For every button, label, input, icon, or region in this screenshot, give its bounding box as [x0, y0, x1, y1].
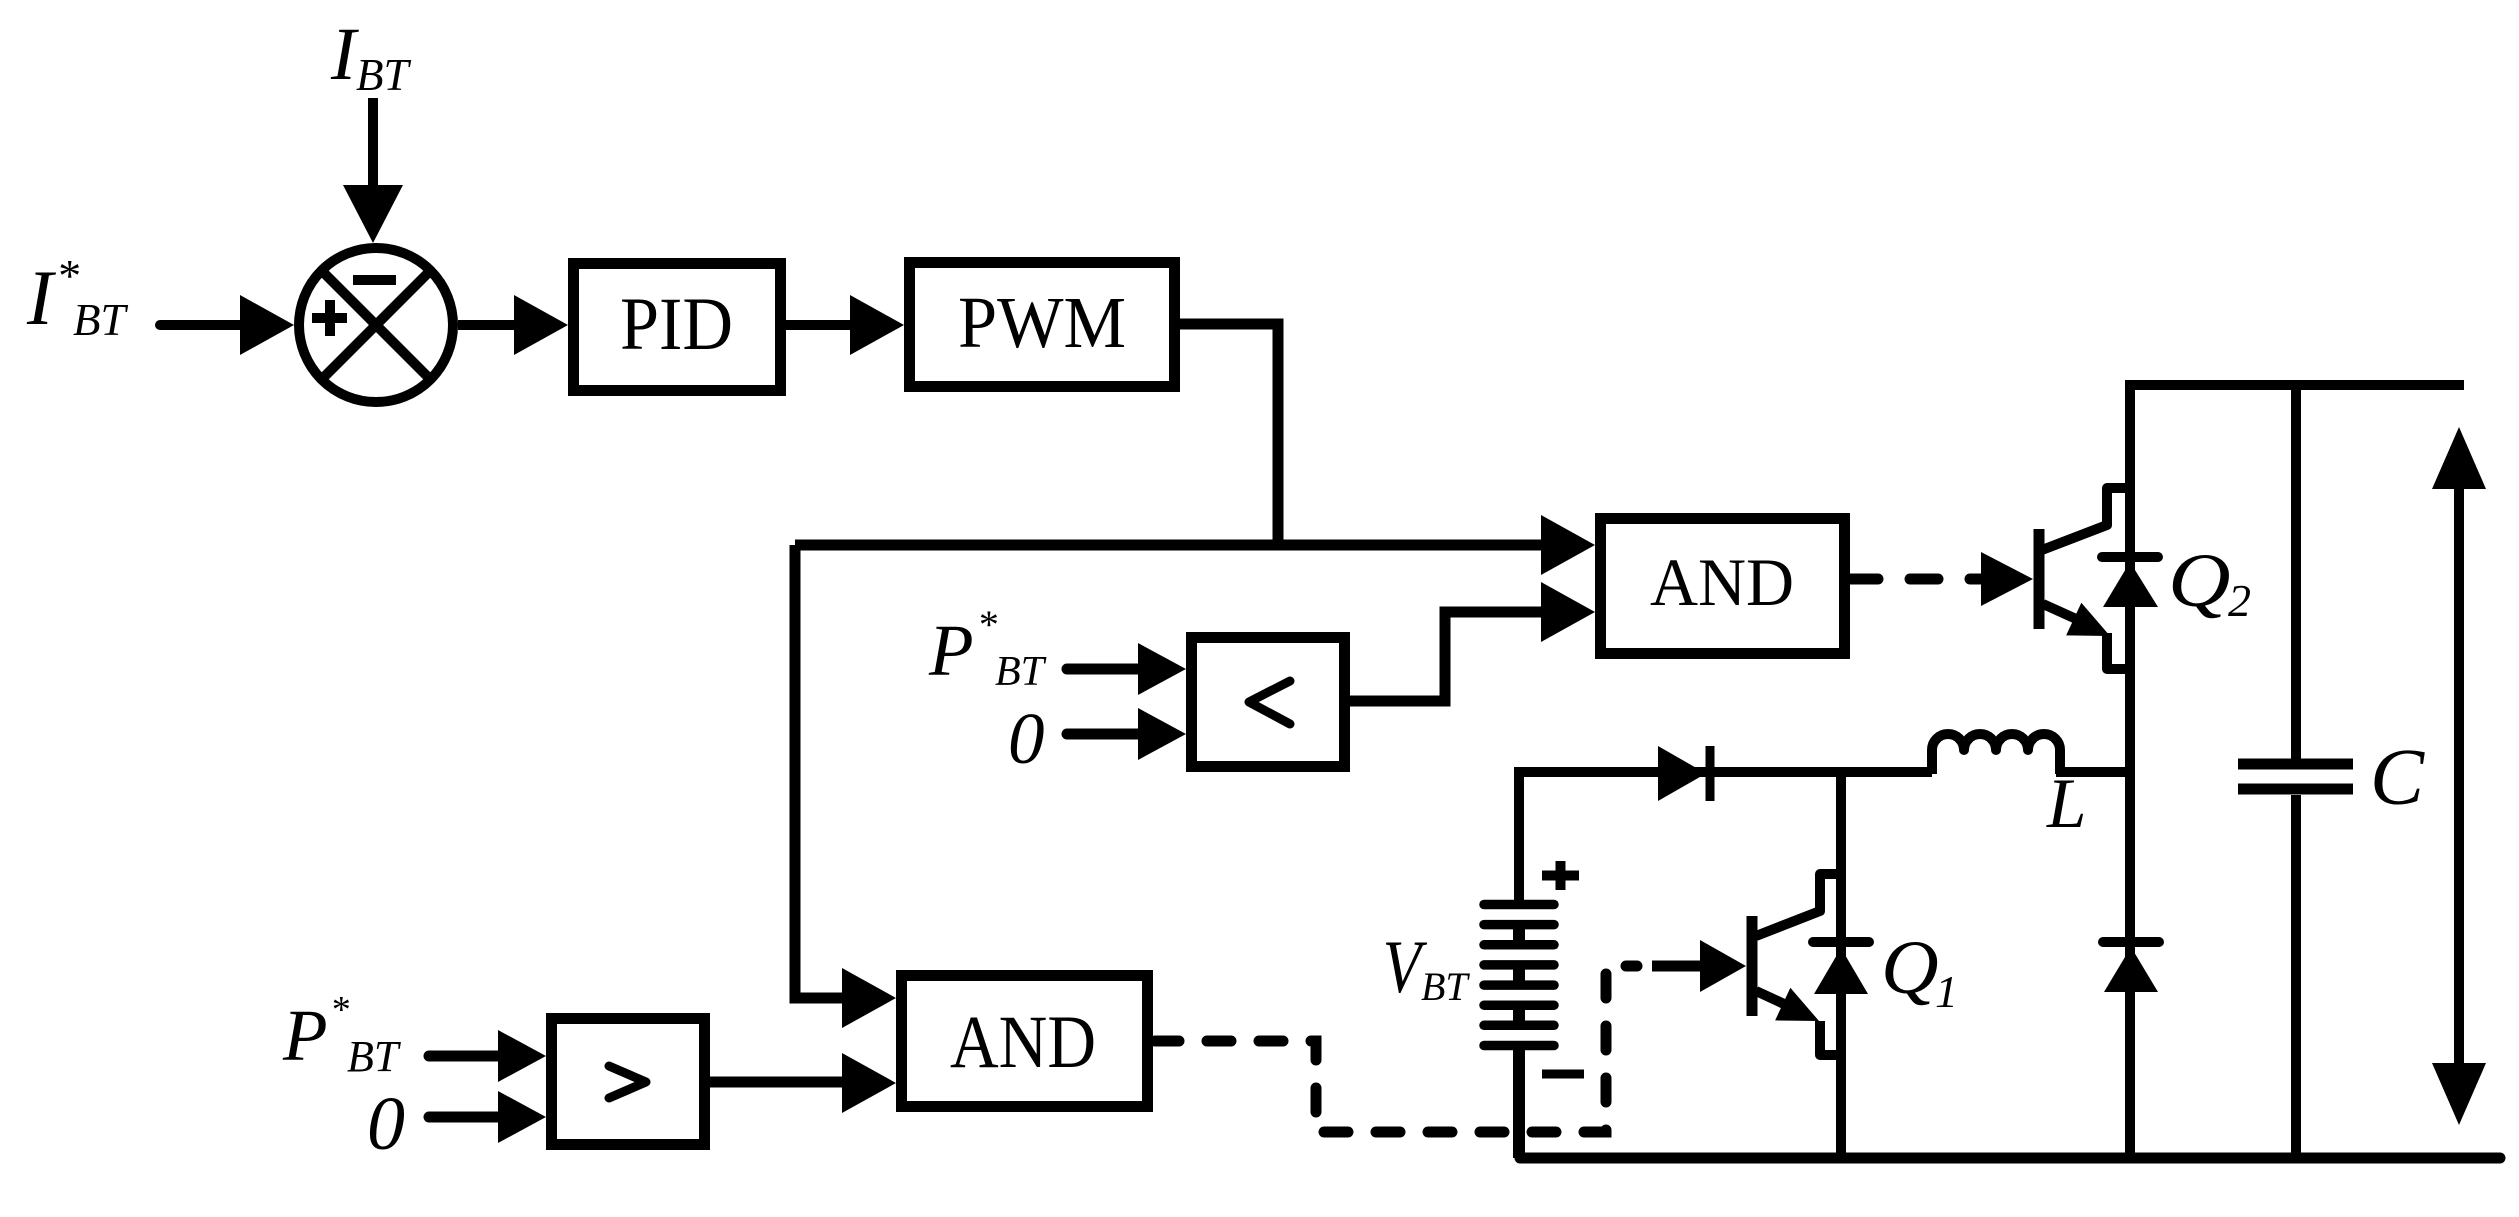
svg-text:BT: BT [347, 1032, 402, 1081]
svg-text:BT: BT [1421, 964, 1470, 1009]
svg-text:BT: BT [73, 295, 128, 345]
svg-text:Q: Q [2168, 538, 2231, 623]
svg-text:C: C [2370, 732, 2425, 822]
svg-text:I: I [26, 254, 57, 341]
svg-text:I: I [330, 13, 359, 96]
svg-text:P: P [928, 610, 974, 691]
svg-text:BT: BT [995, 649, 1047, 695]
svg-text:P: P [282, 995, 328, 1076]
svg-text:0: 0 [1008, 698, 1045, 779]
svg-text:*: * [977, 602, 997, 647]
svg-text:*: * [330, 989, 349, 1031]
svg-text:L: L [2046, 765, 2087, 843]
svg-text:*: * [56, 250, 79, 301]
svg-text:0: 0 [367, 1082, 405, 1166]
svg-text:2: 2 [2228, 575, 2251, 626]
svg-text:BT: BT [356, 50, 411, 100]
svg-text:1: 1 [1935, 966, 1958, 1017]
svg-text:AND: AND [1650, 544, 1794, 620]
svg-text:Q: Q [1881, 926, 1939, 1010]
svg-text:PWM: PWM [958, 282, 1126, 363]
svg-text:AND: AND [950, 1001, 1096, 1084]
svg-text:PID: PID [620, 283, 733, 366]
